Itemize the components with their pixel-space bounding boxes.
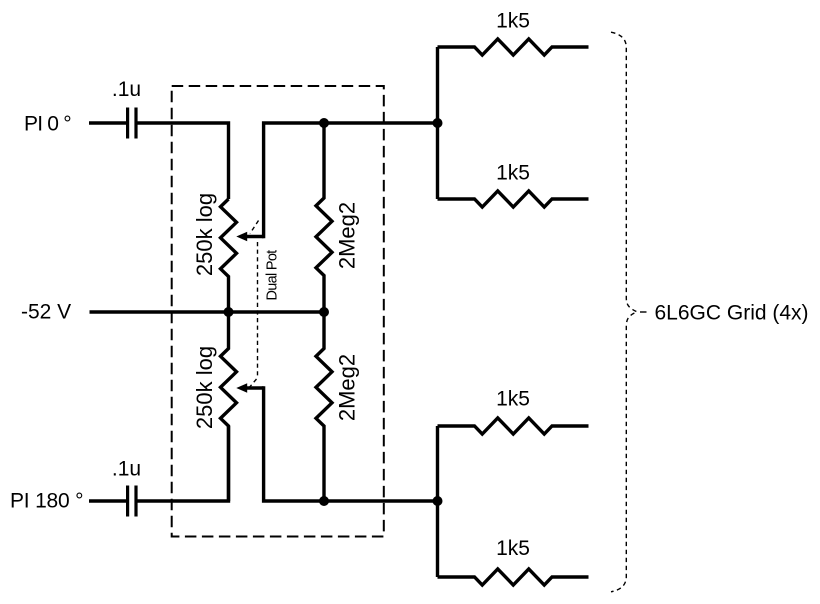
svg-text:PI 180 °: PI 180 ° <box>10 490 83 513</box>
wire PI0 input lead <box>89 121 126 124</box>
junction dot upper output / 2Meg2 top <box>319 118 329 128</box>
potentiometer R1 250k log body <box>221 199 237 312</box>
resistor R5 1k5 (top) <box>438 39 589 55</box>
junction dot upper branch point <box>433 118 443 128</box>
potentiometer R2 wiper arrow <box>246 386 264 389</box>
capacitor C2 .1u right plate <box>134 486 137 517</box>
svg-text:1k5: 1k5 <box>496 10 530 33</box>
brace pointer dash <box>640 311 647 313</box>
gang link dashed line between wipers <box>249 221 259 388</box>
junction dot lower output / 2Meg2 bottom <box>319 496 329 506</box>
capacitor C2 .1u left plate <box>126 486 129 517</box>
svg-text:6L6GC Grid (4x): 6L6GC Grid (4x) <box>655 302 809 325</box>
capacitor C1 .1u right plate <box>134 108 137 139</box>
resistor R8 1k5 (bottom) <box>438 569 589 585</box>
brace 6L6GC grid group (dashed curly bracket) <box>611 32 637 592</box>
wire R2 wiper to output line <box>264 386 438 501</box>
junction dot 2Meg2 mid to -52V rail <box>319 307 329 317</box>
junction dot lower branch point <box>433 496 443 506</box>
wire -52V supply rail <box>90 310 325 313</box>
wire upper branch vertical <box>436 47 439 199</box>
wire PI180 input lead <box>89 499 126 502</box>
svg-text:.1u: .1u <box>112 458 141 481</box>
svg-text:.1u: .1u <box>112 78 141 101</box>
svg-text:1k5: 1k5 <box>496 387 530 410</box>
resistor R3 2Meg2 upper <box>316 123 332 312</box>
wire R1 wiper to output line <box>264 123 438 238</box>
dashed enclosure box (dual pot assembly) <box>172 86 384 537</box>
svg-text:1k5: 1k5 <box>496 161 530 184</box>
svg-text:1k5: 1k5 <box>496 537 530 560</box>
capacitor C1 .1u left plate <box>126 108 129 139</box>
svg-text:2Meg2: 2Meg2 <box>335 354 360 421</box>
svg-text:250k log: 250k log <box>192 193 217 276</box>
svg-text:Dual Pot: Dual Pot <box>265 250 281 301</box>
resistor R6 1k5 (second) <box>438 191 589 207</box>
resistor R7 1k5 (third) <box>438 418 589 434</box>
svg-text:-52 V: -52 V <box>21 301 71 324</box>
svg-text:2Meg2: 2Meg2 <box>335 202 360 269</box>
resistor R4 2Meg2 lower <box>316 312 332 501</box>
svg-text:PI 0 °: PI 0 ° <box>24 112 71 135</box>
potentiometer R1 wiper arrow <box>246 235 264 238</box>
potentiometer R2 250k log body <box>221 312 237 501</box>
wire C1 to pot top terminal <box>137 123 228 199</box>
wire lower branch vertical <box>436 426 439 577</box>
wire C2 to pot bottom terminal <box>137 426 228 501</box>
junction dot pots to -52V rail <box>224 307 234 317</box>
svg-text:250k log: 250k log <box>192 346 217 429</box>
